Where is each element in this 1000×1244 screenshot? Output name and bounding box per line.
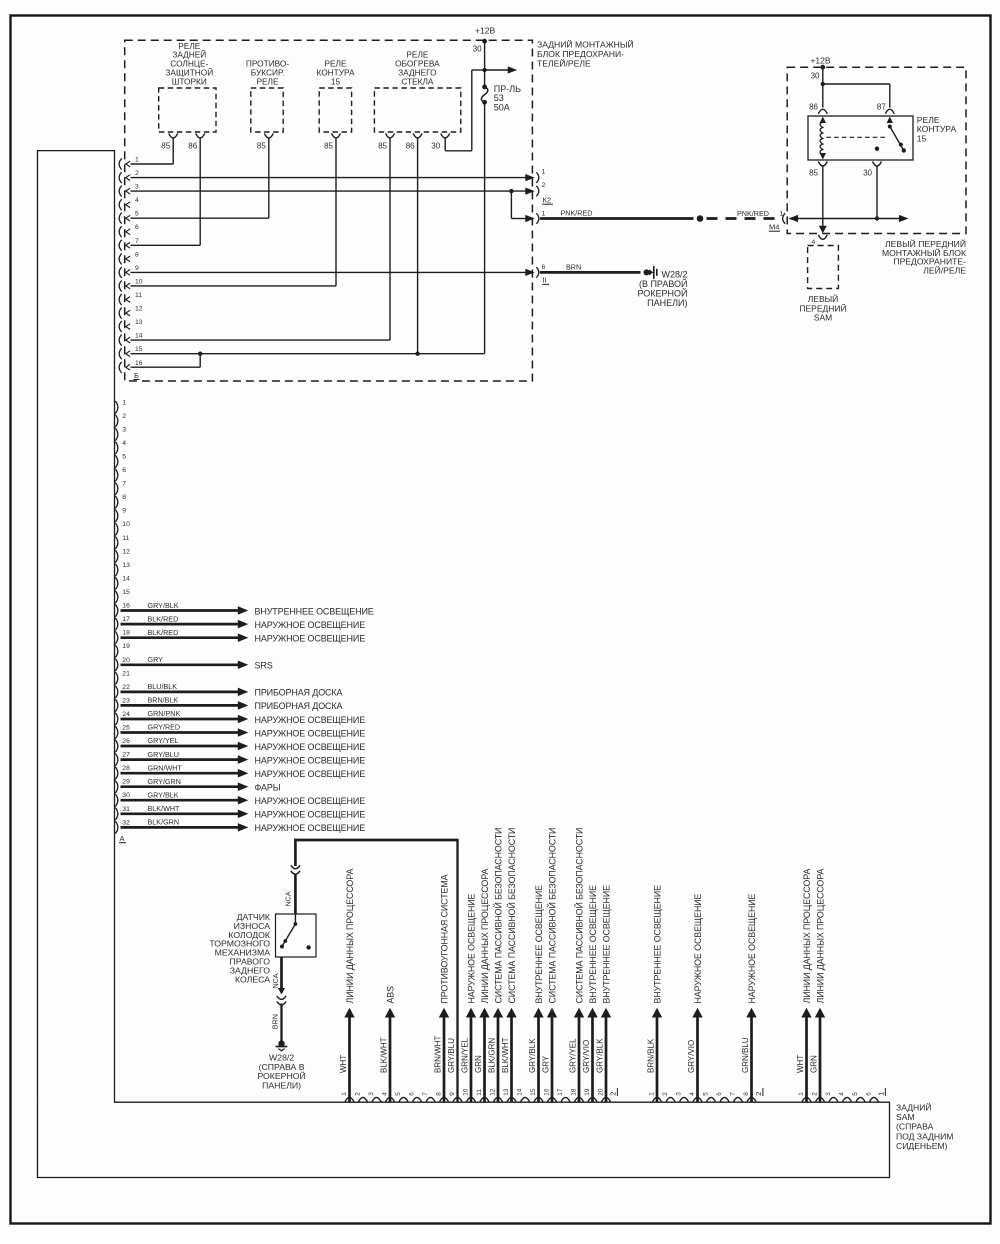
svg-text:2: 2 — [122, 413, 126, 420]
wire А31 BLK/WHT — [121, 812, 239, 815]
connector Б pin 10 — [119, 280, 122, 291]
connector 2 pin 6 — [720, 1097, 729, 1101]
connector А pin 24 — [115, 713, 118, 726]
connector А pin 12 — [115, 550, 118, 563]
svg-text:17: 17 — [557, 1088, 564, 1096]
svg-text:7: 7 — [730, 1092, 737, 1096]
svg-text:GRY: GRY — [542, 1055, 551, 1073]
svg-text:BRN: BRN — [566, 262, 581, 271]
block edge connector pin 1 (from Б2) — [525, 174, 535, 181]
svg-text:2: 2 — [609, 1092, 618, 1096]
connector 1 pin 1 — [802, 1097, 811, 1101]
relay K3 circuit-15: box — [319, 88, 351, 132]
svg-text:+12В: +12В — [475, 26, 495, 36]
relay K circuit-15 pin 86 — [818, 109, 827, 114]
wire Б10 to relay K3 pin85 — [131, 285, 337, 287]
svg-text:GRY/BLU: GRY/BLU — [447, 1038, 456, 1073]
connector 1 pin 4 — [843, 1097, 852, 1101]
svg-text:6: 6 — [122, 467, 126, 474]
svg-text:8: 8 — [436, 1092, 443, 1096]
svg-text:GRY: GRY — [148, 655, 164, 664]
wire 2.1 BRN/BLK — [656, 1017, 659, 1102]
wire +12V down — [484, 41, 486, 86]
svg-text:GRY/BLK: GRY/BLK — [528, 1038, 537, 1073]
relay K pin 85 — [818, 162, 827, 167]
wire to right with arrow — [485, 69, 509, 71]
svg-text:5: 5 — [852, 1092, 859, 1096]
svg-text:4: 4 — [382, 1092, 389, 1096]
svg-text:15: 15 — [917, 133, 927, 143]
connector 2 pin 4 — [386, 1097, 395, 1101]
connector А pin 2 — [115, 415, 118, 428]
svg-text:BLK/GRN: BLK/GRN — [148, 818, 180, 827]
connector 2 pin 16 — [548, 1097, 557, 1101]
svg-text:СИСТЕМА ПАССИВНОЙ БЕЗОПАСНОСТИ: СИСТЕМА ПАССИВНОЙ БЕЗОПАСНОСТИ — [506, 828, 517, 1004]
wire riser from bottom pin A9 — [456, 840, 458, 1102]
svg-text:НАРУЖНОЕ ОСВЕЩЕНИЕ: НАРУЖНОЕ ОСВЕЩЕНИЕ — [255, 796, 366, 806]
svg-text:3: 3 — [676, 1092, 683, 1096]
connector А pin 19 — [115, 645, 118, 658]
svg-text:СИСТЕМА ПАССИВНОЙ БЕЗОПАСНОСТИ: СИСТЕМА ПАССИВНОЙ БЕЗОПАСНОСТИ — [546, 828, 557, 1004]
wire А26 GRY/YEL — [121, 745, 239, 748]
svg-text:30: 30 — [431, 142, 440, 151]
connector 2 pin 2 — [359, 1097, 368, 1101]
svg-text:PNK/RED: PNK/RED — [561, 209, 593, 218]
svg-text:НАРУЖНОЕ ОСВЕЩЕНИЕ: НАРУЖНОЕ ОСВЕЩЕНИЕ — [255, 755, 366, 765]
connector 2 pin 8 — [747, 1097, 756, 1101]
ground W28/2 right rocker panel — [644, 269, 650, 275]
svg-text:15: 15 — [530, 1088, 537, 1096]
svg-text:КОЛЕСА: КОЛЕСА — [235, 974, 270, 984]
wire 2.4 BLK/WHT — [389, 1017, 392, 1102]
svg-text:К2: К2 — [543, 196, 552, 205]
connector Б pin 2 — [119, 172, 122, 183]
svg-text:НАРУЖНОЕ ОСВЕЩЕНИЕ: НАРУЖНОЕ ОСВЕЩЕНИЕ — [255, 728, 366, 738]
wire 2.16 GRY — [551, 1017, 554, 1102]
relay K circuit-15: box — [808, 116, 913, 160]
svg-text:2: 2 — [355, 1092, 362, 1096]
connector А pin 6 — [115, 469, 118, 482]
svg-text:II: II — [543, 276, 547, 285]
wire А32 BLK/GRN — [121, 826, 239, 829]
svg-text:10: 10 — [135, 278, 143, 285]
svg-text:26: 26 — [122, 738, 130, 745]
svg-text:НАРУЖНОЕ ОСВЕЩЕНИЕ: НАРУЖНОЕ ОСВЕЩЕНИЕ — [255, 810, 366, 820]
connector А pin 31 — [115, 808, 118, 821]
connector 2 pin 3 — [372, 1097, 381, 1101]
wire Б9 to block edge pin6 — [131, 271, 527, 273]
svg-text:ABS: ABS — [385, 986, 395, 1004]
svg-text:GRN/YEL: GRN/YEL — [461, 1037, 470, 1073]
connector А pin 32 — [115, 821, 118, 834]
connector Б pin 14 — [119, 335, 122, 346]
svg-text:30: 30 — [811, 72, 820, 81]
svg-text:1: 1 — [798, 1092, 805, 1096]
connector 2 pin 2 — [666, 1097, 675, 1101]
svg-text:14: 14 — [517, 1088, 524, 1096]
svg-text:НАРУЖНОЕ ОСВЕЩЕНИЕ: НАРУЖНОЕ ОСВЕЩЕНИЕ — [747, 893, 757, 1003]
connector А pin 1 — [115, 401, 118, 414]
svg-text:ЗАДНИЙ МОНТАЖНЫЙ: ЗАДНИЙ МОНТАЖНЫЙ — [537, 39, 634, 50]
svg-text:BRN: BRN — [271, 1014, 280, 1029]
wire А30 GRY/BLK — [121, 799, 239, 802]
connector А pin 28 — [115, 767, 118, 780]
svg-text:13: 13 — [122, 562, 130, 569]
connector А pin 3 — [115, 428, 118, 441]
connector 2 pin 9 — [453, 1097, 462, 1101]
svg-text:NCA: NCA — [283, 891, 292, 906]
connector Б pin 15 — [119, 348, 122, 359]
connector Б pin 11 — [119, 294, 122, 305]
svg-text:24: 24 — [122, 711, 130, 718]
svg-text:9: 9 — [122, 508, 126, 515]
wire А27 GRY/BLU — [121, 758, 239, 761]
svg-text:BRN/BLK: BRN/BLK — [148, 696, 179, 705]
svg-text:GRY/RED: GRY/RED — [148, 723, 181, 732]
svg-text:21: 21 — [122, 670, 130, 677]
svg-text:13: 13 — [135, 319, 143, 326]
svg-text:SAM: SAM — [814, 313, 832, 323]
svg-text:8: 8 — [135, 251, 139, 258]
svg-text:8: 8 — [122, 494, 126, 501]
relay K1 pin 86 — [196, 133, 205, 138]
svg-text:ПАНЕЛИ): ПАНЕЛИ) — [647, 298, 687, 308]
relay K1 pin 85 — [169, 133, 178, 138]
svg-text:GRY/VIO: GRY/VIO — [687, 1040, 696, 1073]
wire break symbol — [291, 865, 300, 868]
wire fuse down to row 15 — [484, 102, 486, 353]
svg-text:GRY/BLK: GRY/BLK — [596, 1038, 605, 1073]
connector А pin 20 — [115, 659, 118, 672]
connector 2 pin 3 — [680, 1097, 689, 1101]
svg-text:РОКЕРНОЙ: РОКЕРНОЙ — [637, 288, 687, 299]
svg-text:18: 18 — [571, 1088, 578, 1096]
svg-text:85: 85 — [324, 142, 333, 151]
svg-text:НАРУЖНОЕ ОСВЕЩЕНИЕ: НАРУЖНОЕ ОСВЕЩЕНИЕ — [255, 715, 366, 725]
svg-text:ВНУТРЕННЕЕ ОСВЕЩЕНИЕ: ВНУТРЕННЕЕ ОСВЕЩЕНИЕ — [534, 885, 544, 1004]
svg-text:6: 6 — [542, 264, 546, 271]
svg-text:СТЕКЛА: СТЕКЛА — [401, 76, 434, 86]
svg-text:NCA: NCA — [271, 973, 280, 988]
relay K circuit-15 pin 87 — [885, 109, 894, 114]
wire 2.10 GRN/YEL — [470, 1017, 473, 1102]
connector А pin 4 — [115, 442, 118, 455]
connector А pin 10 — [115, 523, 118, 536]
connector А pin 29 — [115, 781, 118, 794]
svg-text:30: 30 — [473, 45, 482, 54]
connector А pin 5 — [115, 455, 118, 468]
svg-text:9: 9 — [135, 265, 139, 272]
svg-text:11: 11 — [122, 535, 129, 542]
svg-text:32: 32 — [122, 819, 130, 826]
wire А17 BLK/RED — [121, 623, 239, 626]
node Б15/Б16 tie — [198, 352, 202, 356]
svg-text:ПОД ЗАДНИМ: ПОД ЗАДНИМ — [896, 1131, 953, 1141]
connector 2 pin 6 — [413, 1097, 422, 1101]
svg-text:25: 25 — [122, 725, 130, 732]
svg-text:GRN: GRN — [810, 1055, 819, 1073]
svg-text:12: 12 — [122, 548, 130, 555]
wire 2.13 BLK/WHT — [510, 1017, 513, 1102]
svg-text:BLK/WHT: BLK/WHT — [380, 1037, 389, 1073]
connector А pin 9 — [115, 510, 118, 523]
svg-text:ЛИНИИ ДАННЫХ ПРОЦЕССОРА: ЛИНИИ ДАННЫХ ПРОЦЕССОРА — [815, 869, 825, 1004]
connector Б pin 16 — [119, 362, 122, 373]
svg-text:ПРОТИВОУГОННАЯ СИСТЕМА: ПРОТИВОУГОННАЯ СИСТЕМА — [439, 874, 449, 1003]
svg-text:(СПРАВА: (СПРАВА — [896, 1122, 934, 1132]
svg-text:19: 19 — [122, 643, 130, 650]
wire 2.15 GRY/BLK — [537, 1017, 540, 1102]
svg-text:GRN/PNK: GRN/PNK — [148, 709, 181, 718]
fuse 53 50A — [482, 85, 487, 90]
svg-text:7: 7 — [422, 1092, 429, 1096]
svg-text:СИСТЕМА ПАССИВНОЙ БЕЗОПАСНОСТИ: СИСТЕМА ПАССИВНОЙ БЕЗОПАСНОСТИ — [573, 828, 584, 1004]
wire 2.4 GRY/VIO — [696, 1017, 699, 1102]
svg-text:87: 87 — [877, 103, 886, 112]
svg-text:3: 3 — [825, 1092, 832, 1096]
connector 2 pin 4 — [693, 1097, 702, 1101]
svg-text:ЛИНИИ ДАННЫХ ПРОЦЕССОРА: ЛИНИИ ДАННЫХ ПРОЦЕССОРА — [345, 869, 355, 1004]
connector Б pin 13 — [119, 321, 122, 332]
svg-text:Б: Б — [134, 371, 139, 380]
svg-text:5: 5 — [122, 454, 126, 461]
svg-text:ВНУТРЕННЕЕ ОСВЕЩЕНИЕ: ВНУТРЕННЕЕ ОСВЕЩЕНИЕ — [652, 885, 662, 1004]
svg-text:16: 16 — [135, 360, 143, 367]
connector 2 pin 7 — [426, 1097, 435, 1101]
svg-text:16: 16 — [122, 603, 130, 610]
relay K2 pin 85 — [264, 133, 273, 138]
wire NCA lower — [280, 957, 283, 990]
svg-text:4: 4 — [812, 239, 816, 246]
svg-text:М4: М4 — [769, 223, 779, 232]
relay K1 rear sunshade: box — [159, 88, 216, 132]
svg-text:А: А — [120, 834, 125, 843]
svg-text:НАРУЖНОЕ ОСВЕЩЕНИЕ: НАРУЖНОЕ ОСВЕЩЕНИЕ — [255, 620, 366, 630]
svg-text:29: 29 — [122, 779, 130, 786]
connector А pin 27 — [115, 753, 118, 766]
svg-text:СИСТЕМА ПАССИВНОЙ БЕЗОПАСНОСТИ: СИСТЕМА ПАССИВНОЙ БЕЗОПАСНОСТИ — [492, 828, 503, 1004]
wire 2.8 BRN/WHT — [443, 1017, 446, 1102]
svg-text:15: 15 — [331, 76, 341, 86]
connector А pin 14 — [115, 577, 118, 590]
svg-text:ЗАДНИЙ: ЗАДНИЙ — [896, 1102, 932, 1113]
svg-text:15: 15 — [135, 346, 143, 353]
ground W28/2 right rocker (sensor) — [278, 1040, 284, 1046]
wire Б14 to relay K4 pin85 — [131, 339, 391, 341]
node at fuse tap — [482, 68, 486, 72]
wire Б1 to relay K1 pin85 — [131, 163, 174, 165]
svg-text:12: 12 — [490, 1088, 497, 1096]
svg-text:ФАРЫ: ФАРЫ — [255, 783, 281, 793]
svg-text:WHT: WHT — [339, 1055, 348, 1073]
svg-text:BRN/BLK: BRN/BLK — [647, 1038, 656, 1073]
svg-text:НАРУЖНОЕ ОСВЕЩЕНИЕ: НАРУЖНОЕ ОСВЕЩЕНИЕ — [255, 823, 366, 833]
wire NCA upper — [294, 839, 297, 866]
connector А pin 11 — [115, 537, 118, 550]
connector Б pin 8 — [119, 253, 122, 264]
svg-text:2: 2 — [662, 1092, 669, 1096]
wire А24 GRN/PNK — [121, 718, 239, 721]
svg-text:НАРУЖНОЕ ОСВЕЩЕНИЕ: НАРУЖНОЕ ОСВЕЩЕНИЕ — [255, 742, 366, 752]
connector 2 pin 12 — [494, 1097, 503, 1101]
svg-text:86: 86 — [406, 142, 415, 151]
svg-text:6: 6 — [135, 224, 139, 231]
svg-text:1: 1 — [135, 157, 139, 164]
wire relay K4 pin86 down — [417, 138, 419, 354]
connector 2 pin 19 — [588, 1097, 597, 1101]
svg-text:86: 86 — [809, 103, 818, 112]
svg-text:GRY/YEL: GRY/YEL — [148, 736, 179, 745]
wire pin30 down to PNK/RED — [876, 166, 878, 218]
svg-text:2: 2 — [812, 1092, 819, 1096]
connector А pin 16 — [115, 604, 118, 617]
connector 2 pin 7 — [734, 1097, 743, 1101]
svg-text:31: 31 — [122, 806, 130, 813]
connector 2 pin 5 — [707, 1097, 716, 1101]
connector Б pin 9 — [119, 267, 122, 278]
svg-text:GRY/GRN: GRY/GRN — [148, 777, 181, 786]
connector 1 pin 2 — [816, 1097, 825, 1101]
svg-text:27: 27 — [122, 752, 130, 759]
rear fuse/relay mounting block boundary — [125, 40, 533, 381]
svg-text:14: 14 — [135, 333, 143, 340]
wire А29 GRY/GRN — [121, 785, 239, 788]
svg-text:4: 4 — [122, 440, 126, 447]
splice node on PNK/RED — [697, 215, 704, 222]
relay K internal dashed link — [827, 136, 887, 138]
svg-text:18: 18 — [122, 630, 130, 637]
svg-text:ПРИБОРНАЯ ДОСКА: ПРИБОРНАЯ ДОСКА — [255, 701, 343, 711]
connector 2 pin 18 — [575, 1097, 584, 1101]
svg-text:50А: 50А — [494, 102, 510, 112]
connector А pin 30 — [115, 794, 118, 807]
svg-text:SAM: SAM — [896, 1112, 915, 1122]
wire PNK/RED inside front block — [790, 218, 904, 220]
svg-text:НАРУЖНОЕ ОСВЕЩЕНИЕ: НАРУЖНОЕ ОСВЕЩЕНИЕ — [693, 893, 703, 1003]
wire А25 GRY/RED — [121, 731, 239, 734]
relay K3 pin 85 — [332, 133, 341, 138]
connector А pin 26 — [115, 740, 118, 753]
svg-text:1: 1 — [341, 1092, 348, 1096]
wire Б7 to relay K1 pin86 — [131, 244, 201, 246]
svg-text:ТЕЛЕЙ/РЕЛЕ: ТЕЛЕЙ/РЕЛЕ — [537, 57, 591, 68]
svg-text:15: 15 — [122, 589, 130, 596]
wire Б15 bus to fuse — [131, 353, 485, 355]
svg-text:2: 2 — [542, 182, 546, 189]
svg-text:22: 22 — [122, 684, 130, 691]
svg-text:6: 6 — [409, 1092, 416, 1096]
connector 2 pin 1 — [653, 1097, 662, 1101]
connector 2 pin 11 — [480, 1097, 489, 1101]
relay K coil — [820, 117, 826, 124]
connector 2 pin 20 — [602, 1097, 611, 1101]
svg-text:85: 85 — [161, 142, 170, 151]
svg-text:2: 2 — [135, 170, 139, 177]
wire 2.19 GRY/VIO — [591, 1017, 594, 1102]
wire А20 GRY — [121, 663, 239, 666]
svg-text:BLK/WHT: BLK/WHT — [148, 804, 181, 813]
svg-text:6: 6 — [716, 1092, 723, 1096]
rear SAM control unit outline — [38, 151, 890, 1178]
connector 1 pin 5 — [856, 1097, 865, 1101]
wire А18 BLK/RED — [121, 636, 239, 639]
svg-text:ПАНЕЛИ): ПАНЕЛИ) — [262, 1080, 301, 1090]
svg-text:GRN/WHT: GRN/WHT — [148, 763, 183, 772]
connector Б pin 4 — [119, 199, 122, 210]
svg-text:BLK/RED: BLK/RED — [148, 628, 179, 637]
svg-text:3: 3 — [368, 1092, 375, 1096]
connector А pin 18 — [115, 631, 118, 644]
wire 2.18 GRY/YEL — [578, 1017, 581, 1102]
relay K pin 30 — [873, 162, 882, 167]
connector Б pin 6 — [119, 226, 122, 237]
svg-text:5: 5 — [395, 1092, 402, 1096]
left front fuse/relay block boundary — [787, 67, 966, 233]
svg-text:РЕЛЕ: РЕЛЕ — [256, 76, 279, 86]
node on Б3 for K2 output — [509, 189, 513, 193]
svg-text:ВНУТРЕННЕЕ ОСВЕЩЕНИЕ: ВНУТРЕННЕЕ ОСВЕЩЕНИЕ — [255, 606, 374, 616]
connector 2 pin 5 — [399, 1097, 408, 1101]
wire А16 GRY/BLK — [121, 609, 239, 612]
relay K4 rear-window defogger: box — [374, 88, 460, 132]
svg-text:23: 23 — [122, 697, 130, 704]
svg-text:3: 3 — [122, 426, 126, 433]
connector А pin 13 — [115, 564, 118, 577]
wire sensor top link — [294, 839, 459, 842]
relay K2 anti-tow: box — [251, 88, 283, 132]
block edge connector pin 6 (from Б9) — [525, 269, 535, 276]
svg-text:7: 7 — [135, 238, 139, 245]
wire Б5 to relay K2 pin85 — [131, 217, 269, 219]
svg-text:(В ПРАВОЙ: (В ПРАВОЙ — [639, 278, 688, 289]
svg-text:10: 10 — [463, 1088, 470, 1096]
svg-text:BLK/RED: BLK/RED — [148, 614, 179, 623]
svg-text:5: 5 — [703, 1092, 710, 1096]
svg-text:GRY/BLU: GRY/BLU — [148, 750, 179, 759]
wire 2.8 GRN/BLU — [750, 1017, 753, 1102]
svg-text:WHT: WHT — [796, 1055, 805, 1073]
svg-text:1: 1 — [649, 1092, 656, 1096]
connector 2 pin 17 — [561, 1097, 570, 1101]
svg-text:НАРУЖНОЕ ОСВЕЩЕНИЕ: НАРУЖНОЕ ОСВЕЩЕНИЕ — [255, 769, 366, 779]
svg-text:10: 10 — [122, 521, 130, 528]
wire А28 GRN/WHT — [121, 772, 239, 775]
svg-text:30: 30 — [863, 169, 872, 178]
svg-text:4: 4 — [135, 197, 139, 204]
svg-text:1: 1 — [542, 169, 546, 176]
svg-text:GRY/BLK: GRY/BLK — [148, 791, 179, 800]
relay K4 pin 85 — [386, 133, 395, 138]
svg-text:1: 1 — [122, 399, 126, 406]
wire А22 BLU/BLK — [121, 691, 239, 694]
svg-text:ЛИНИИ ДАННЫХ ПРОЦЕССОРА: ЛИНИИ ДАННЫХ ПРОЦЕССОРА — [802, 869, 812, 1004]
connector 2 pin 8 — [440, 1097, 449, 1101]
svg-text:85: 85 — [257, 142, 266, 151]
connector 2 pin 10 — [467, 1097, 476, 1101]
connector 2 pin 13 — [507, 1097, 516, 1101]
svg-text:28: 28 — [122, 765, 130, 772]
wire +12V to relay coil / contact — [822, 67, 824, 107]
connector А pin 22 — [115, 686, 118, 699]
svg-text:8: 8 — [743, 1092, 750, 1096]
svg-text:85: 85 — [809, 169, 818, 178]
svg-text:5: 5 — [135, 211, 139, 218]
wire Б2 to block edge pin1 — [131, 177, 527, 179]
svg-text:ЛЕЙ/РЕЛЕ: ЛЕЙ/РЕЛЕ — [923, 264, 966, 275]
svg-text:GRN/BLU: GRN/BLU — [741, 1037, 750, 1073]
connector А pin 17 — [115, 618, 118, 631]
wire А23 BRN/BLK — [121, 704, 239, 707]
